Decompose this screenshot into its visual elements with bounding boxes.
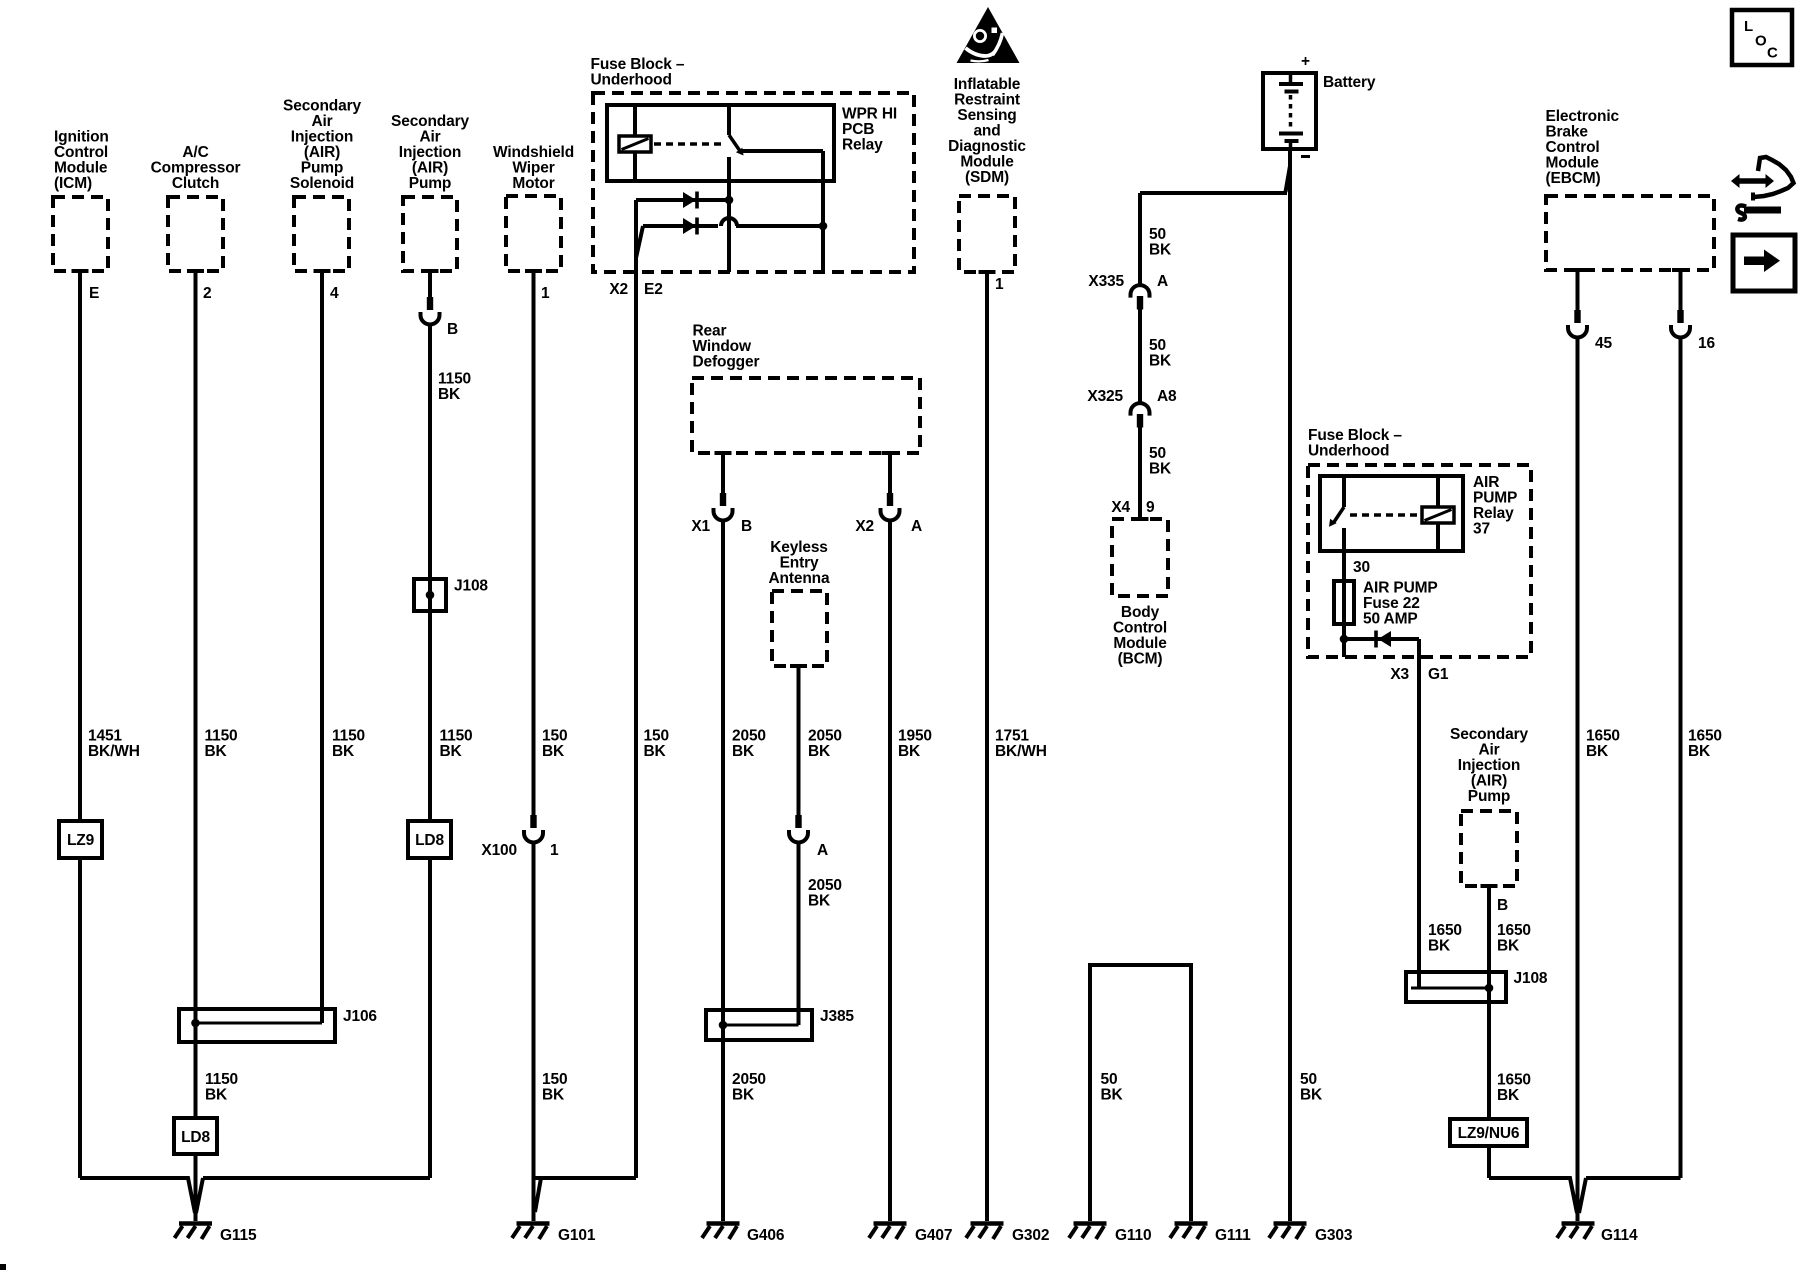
svg-text:Wiper: Wiper xyxy=(512,160,554,177)
svg-text:1650: 1650 xyxy=(1586,728,1620,745)
svg-text:J108: J108 xyxy=(454,578,488,595)
svg-text:A: A xyxy=(1157,273,1168,290)
svg-text:2050: 2050 xyxy=(808,877,842,894)
svg-text:1650: 1650 xyxy=(1688,728,1722,745)
svg-text:4: 4 xyxy=(330,285,339,302)
svg-text:Rear: Rear xyxy=(693,323,727,340)
svg-text:150: 150 xyxy=(644,728,669,745)
svg-text:Control: Control xyxy=(1113,620,1167,637)
svg-text:2050: 2050 xyxy=(732,728,766,745)
svg-text:A: A xyxy=(817,842,828,859)
svg-text:50 AMP: 50 AMP xyxy=(1363,611,1418,628)
svg-text:1150: 1150 xyxy=(438,371,471,388)
svg-text:1: 1 xyxy=(541,285,550,302)
svg-text:50: 50 xyxy=(1101,1071,1118,1088)
svg-text:1650: 1650 xyxy=(1497,1072,1531,1089)
svg-text:G111: G111 xyxy=(1215,1227,1251,1244)
svg-text:(SDM): (SDM) xyxy=(965,169,1009,186)
svg-text:BK: BK xyxy=(1688,743,1711,760)
svg-text:Module: Module xyxy=(1546,155,1600,172)
svg-text:BK: BK xyxy=(732,743,755,760)
svg-text:B: B xyxy=(447,321,458,338)
svg-text:BK: BK xyxy=(1149,353,1172,370)
svg-text:A8: A8 xyxy=(1157,388,1177,405)
svg-text:G115: G115 xyxy=(220,1227,257,1244)
svg-text:BK: BK xyxy=(332,743,355,760)
svg-text:BK: BK xyxy=(1428,938,1451,955)
svg-text:Entry: Entry xyxy=(780,555,819,572)
svg-text:1: 1 xyxy=(550,842,559,859)
svg-text:AIR: AIR xyxy=(1473,474,1499,491)
svg-text:X335: X335 xyxy=(1088,273,1124,290)
svg-text:1650: 1650 xyxy=(1497,922,1531,939)
svg-text:Brake: Brake xyxy=(1546,124,1589,141)
svg-text:1150: 1150 xyxy=(205,1071,238,1088)
svg-text:Compressor: Compressor xyxy=(151,160,241,177)
svg-text:LZ9: LZ9 xyxy=(67,832,95,849)
svg-text:Air: Air xyxy=(419,129,440,146)
svg-text:(ICM): (ICM) xyxy=(54,175,92,192)
svg-text:Control: Control xyxy=(1546,139,1600,156)
svg-text:1150: 1150 xyxy=(440,728,473,745)
svg-text:BK: BK xyxy=(1149,461,1172,478)
svg-text:30: 30 xyxy=(1353,559,1370,576)
svg-text:Sensing: Sensing xyxy=(957,107,1016,124)
svg-text:Fuse Block –: Fuse Block – xyxy=(591,56,685,73)
svg-text:BK/WH: BK/WH xyxy=(995,743,1047,760)
svg-text:Defogger: Defogger xyxy=(693,354,760,371)
svg-text:LZ9/NU6: LZ9/NU6 xyxy=(1458,1125,1520,1142)
svg-text:Underhood: Underhood xyxy=(1308,443,1389,460)
svg-text:1150: 1150 xyxy=(205,728,238,745)
svg-text:Windshield: Windshield xyxy=(493,144,574,161)
svg-text:BK: BK xyxy=(542,743,565,760)
svg-text:G406: G406 xyxy=(747,1227,785,1244)
svg-text:(AIR): (AIR) xyxy=(304,144,340,161)
svg-text:Fuse 22: Fuse 22 xyxy=(1363,595,1420,612)
svg-text:Clutch: Clutch xyxy=(172,175,219,192)
svg-text:1751: 1751 xyxy=(995,728,1029,745)
svg-text:Injection: Injection xyxy=(399,144,461,161)
svg-text:BK: BK xyxy=(644,743,667,760)
svg-text:Pump: Pump xyxy=(409,175,451,192)
svg-text:PUMP: PUMP xyxy=(1473,490,1517,507)
svg-text:PCB: PCB xyxy=(842,121,874,138)
svg-text:G302: G302 xyxy=(1012,1227,1049,1244)
svg-text:G407: G407 xyxy=(915,1227,952,1244)
svg-text:A: A xyxy=(911,518,922,535)
svg-text:J108: J108 xyxy=(1514,970,1548,987)
svg-text:1950: 1950 xyxy=(898,728,932,745)
svg-text:Injection: Injection xyxy=(291,129,353,146)
svg-text:and: and xyxy=(973,123,1000,140)
svg-text:Solenoid: Solenoid xyxy=(290,175,354,192)
svg-text:X325: X325 xyxy=(1087,388,1123,405)
svg-text:E: E xyxy=(89,285,99,302)
svg-text:X3: X3 xyxy=(1390,666,1409,683)
svg-text:Air: Air xyxy=(1478,742,1499,759)
svg-text:X100: X100 xyxy=(481,842,517,859)
svg-text:LD8: LD8 xyxy=(415,832,444,849)
svg-text:50: 50 xyxy=(1149,445,1166,462)
svg-text:1451: 1451 xyxy=(88,728,122,745)
svg-text:Electronic: Electronic xyxy=(1546,108,1620,125)
svg-text:Relay: Relay xyxy=(842,137,883,154)
svg-text:16: 16 xyxy=(1698,335,1715,352)
svg-text:BK: BK xyxy=(808,893,831,910)
svg-text:(BCM): (BCM) xyxy=(1118,651,1163,668)
svg-text:Injection: Injection xyxy=(1458,757,1520,774)
svg-text:G101: G101 xyxy=(558,1227,596,1244)
svg-text:150: 150 xyxy=(542,1071,567,1088)
svg-text:BK: BK xyxy=(1300,1087,1323,1104)
svg-text:J106: J106 xyxy=(343,1008,377,1025)
svg-text:1150: 1150 xyxy=(332,728,365,745)
svg-text:Underhood: Underhood xyxy=(591,72,672,89)
svg-text:E2: E2 xyxy=(644,281,663,298)
svg-text:150: 150 xyxy=(542,728,567,745)
svg-text:BK: BK xyxy=(1497,1087,1520,1104)
svg-text:L: L xyxy=(1744,18,1753,35)
svg-text:Ignition: Ignition xyxy=(54,129,109,146)
svg-text:2: 2 xyxy=(203,285,211,302)
svg-text:G114: G114 xyxy=(1601,1227,1638,1244)
svg-text:Air: Air xyxy=(311,113,332,130)
svg-text:9: 9 xyxy=(1146,499,1155,516)
svg-text:1: 1 xyxy=(995,276,1004,293)
svg-text:Inflatable: Inflatable xyxy=(954,76,1021,93)
svg-text:BK: BK xyxy=(898,743,921,760)
svg-text:BK: BK xyxy=(1101,1087,1124,1104)
svg-text:BK: BK xyxy=(1497,938,1520,955)
svg-text:C: C xyxy=(1767,45,1778,62)
svg-text:BK: BK xyxy=(1586,743,1609,760)
svg-text:2050: 2050 xyxy=(808,728,842,745)
svg-text:+: + xyxy=(1301,53,1310,70)
svg-text:BK: BK xyxy=(438,386,461,403)
svg-text:Fuse Block –: Fuse Block – xyxy=(1308,427,1402,444)
svg-text:B: B xyxy=(741,518,752,535)
svg-text:BK: BK xyxy=(542,1087,565,1104)
svg-text:J385: J385 xyxy=(820,1008,854,1025)
svg-text:(EBCM): (EBCM) xyxy=(1546,170,1601,187)
svg-text:Pump: Pump xyxy=(301,160,343,177)
svg-text:A/C: A/C xyxy=(182,144,208,161)
svg-text:50: 50 xyxy=(1149,337,1166,354)
svg-text:BK/WH: BK/WH xyxy=(88,743,140,760)
svg-text:X2: X2 xyxy=(609,281,628,298)
svg-text:Module: Module xyxy=(54,160,108,177)
svg-text:Relay: Relay xyxy=(1473,505,1514,522)
svg-text:G1: G1 xyxy=(1428,666,1449,683)
svg-text:2050: 2050 xyxy=(732,1071,766,1088)
svg-text:Secondary: Secondary xyxy=(391,113,469,130)
svg-text:BK: BK xyxy=(440,743,463,760)
svg-text:Module: Module xyxy=(1113,635,1167,652)
svg-text:Battery: Battery xyxy=(1323,74,1376,91)
svg-text:WPR HI: WPR HI xyxy=(842,106,897,123)
svg-text:BK: BK xyxy=(205,1087,228,1104)
svg-text:Diagnostic: Diagnostic xyxy=(948,138,1026,155)
svg-text:Module: Module xyxy=(960,154,1014,171)
svg-text:Control: Control xyxy=(54,144,108,161)
svg-text:37: 37 xyxy=(1473,521,1490,538)
svg-text:Secondary: Secondary xyxy=(283,98,361,115)
svg-text:50: 50 xyxy=(1149,226,1166,243)
svg-text:Body: Body xyxy=(1121,604,1160,621)
svg-text:BK: BK xyxy=(205,743,228,760)
svg-text:Keyless: Keyless xyxy=(770,539,828,556)
svg-text:Window: Window xyxy=(693,338,752,355)
svg-text:AIR PUMP: AIR PUMP xyxy=(1363,580,1438,597)
svg-text:LD8: LD8 xyxy=(181,1129,210,1146)
svg-text:50: 50 xyxy=(1300,1071,1317,1088)
svg-text:X2: X2 xyxy=(855,518,874,535)
svg-text:(AIR): (AIR) xyxy=(412,160,448,177)
svg-text:BK: BK xyxy=(732,1087,755,1104)
svg-text:O: O xyxy=(1755,33,1767,50)
svg-text:BK: BK xyxy=(1149,242,1172,259)
svg-text:Antenna: Antenna xyxy=(769,570,830,587)
svg-text:G110: G110 xyxy=(1115,1227,1151,1244)
svg-text:B: B xyxy=(1497,897,1508,914)
svg-text:45: 45 xyxy=(1595,335,1612,352)
svg-text:1650: 1650 xyxy=(1428,922,1462,939)
svg-text:Restraint: Restraint xyxy=(954,92,1020,109)
svg-text:Pump: Pump xyxy=(1468,788,1510,805)
svg-text:Secondary: Secondary xyxy=(1450,726,1528,743)
svg-text:(AIR): (AIR) xyxy=(1471,773,1507,790)
svg-text:G303: G303 xyxy=(1315,1227,1353,1244)
svg-text:Motor: Motor xyxy=(512,175,554,192)
svg-text:X4: X4 xyxy=(1111,499,1130,516)
svg-text:X1: X1 xyxy=(691,518,710,535)
svg-text:BK: BK xyxy=(808,743,831,760)
